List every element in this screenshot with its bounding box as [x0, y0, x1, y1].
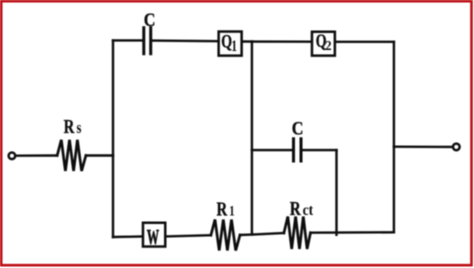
svg-text:1: 1: [231, 38, 237, 55]
svg-text:ct: ct: [303, 202, 314, 219]
svg-text:1: 1: [229, 202, 235, 219]
svg-text:C: C: [144, 9, 156, 31]
svg-text:R: R: [290, 197, 302, 220]
svg-text:W: W: [147, 226, 159, 249]
svg-text:C: C: [292, 117, 304, 139]
svg-text:R: R: [64, 115, 75, 138]
svg-text:R: R: [217, 197, 228, 220]
svg-text:Q: Q: [221, 30, 232, 51]
svg-text:2: 2: [325, 37, 332, 53]
svg-text:s: s: [77, 120, 82, 138]
